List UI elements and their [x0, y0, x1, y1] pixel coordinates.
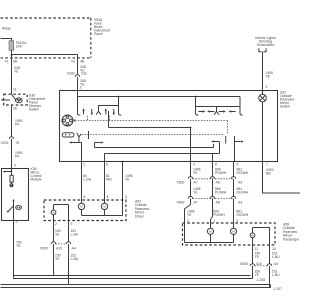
driver mirror motor M1 [78, 200, 84, 216]
svg-text:L-BU: L-BU [272, 273, 280, 277]
node junction L1 [190, 127, 192, 129]
connector X600 row A7 A8 A3 [177, 196, 243, 204]
svg-text:PK: PK [15, 123, 20, 127]
connector X600 row A10 A4 [240, 262, 278, 268]
driver mirror motor common return [82, 215, 123, 217]
svg-text:OG/WH: OG/WH [236, 213, 248, 217]
wire 881 OG/WH to X500 [234, 162, 249, 177]
svg-text:20A: 20A [16, 45, 23, 49]
internal link line L2 with arrows [105, 136, 244, 162]
svg-text:YE: YE [16, 244, 21, 248]
left-right contact group wipers [196, 107, 243, 116]
wire pin 3 feed to rail [77, 91, 79, 97]
svg-text:2: 2 [266, 85, 268, 89]
wire lamp to pin 1 [262, 102, 264, 162]
svg-text:L-BU: L-BU [71, 257, 79, 261]
svg-text:X600: X600 [177, 200, 185, 204]
wire 151 L-BU passenger [270, 245, 281, 264]
svg-text:M: M [251, 233, 253, 237]
svg-text:Schematics: Schematics [257, 43, 275, 47]
wire 881 OG/WH X500 to X600 [234, 181, 249, 197]
svg-text:L-GN: L-GN [83, 178, 92, 182]
module K36 box [2, 169, 29, 221]
svg-text:YE: YE [14, 70, 19, 74]
driver mirror bottom pins 2 and 9 [55, 222, 73, 226]
wire 4302 BN from lamp to right edge [263, 162, 301, 194]
svg-text:1: 1 [83, 163, 85, 167]
ground bus J-207 [1, 285, 283, 291]
K36 internal feed with left arrow [3, 169, 13, 176]
up-down contact group wipers [78, 97, 122, 116]
label A58 Outside Rearview Mirror - Passenger [283, 223, 300, 242]
wire 1496 YE branch to driver mirror [122, 161, 192, 216]
svg-text:YE: YE [266, 75, 271, 79]
driver mirror motor M2 [101, 200, 107, 216]
wire 151 L-BU driver [69, 221, 79, 242]
svg-text:X1: X1 [5, 59, 9, 63]
svg-text:A8: A8 [216, 200, 220, 204]
svg-text:5: 5 [106, 163, 108, 167]
wire 1490 YE [263, 52, 274, 91]
svg-text:3: 3 [125, 195, 127, 199]
svg-text:Panel: Panel [94, 32, 103, 36]
svg-text:Passenger: Passenger [283, 237, 300, 241]
fuse F61DA 20A [9, 41, 27, 50]
svg-text:X2: X2 [71, 59, 75, 63]
node junctions on rail [118, 96, 120, 98]
svg-text:A7: A7 [194, 181, 198, 185]
resistor in K36 [10, 175, 13, 182]
svg-text:75: 75 [16, 141, 20, 145]
svg-text:X500: X500 [177, 181, 185, 185]
svg-text:L-BU: L-BU [71, 233, 79, 237]
svg-text:PU/WH: PU/WH [213, 213, 225, 217]
svg-text:YE: YE [255, 255, 260, 259]
wire 150 YE passenger to ground bus [253, 268, 261, 279]
lamp illumination bulb [259, 91, 267, 102]
label A53 Outside Rearview Mirror - Driver [135, 200, 150, 219]
wire 150 YE passenger [253, 245, 261, 264]
svg-text:8: 8 [215, 163, 217, 167]
svg-text:YE: YE [187, 213, 192, 217]
passenger mirror heater motor [250, 228, 269, 246]
joystick direction control [62, 115, 73, 126]
label S92 Outside Rearview Mirror Switch [280, 91, 295, 109]
pin X1 6B [5, 59, 18, 63]
wire 150 YE driver [54, 221, 61, 242]
driver mirror A53 dashed box [44, 200, 126, 221]
label X51A Fuse Block - Instrument Panel [94, 18, 110, 36]
wire 1496 YE X500 to X600 [191, 181, 201, 197]
svg-text:J-207: J-207 [274, 287, 283, 291]
wire 869 PU/WH into passenger mirror [211, 201, 226, 224]
svg-text:A8: A8 [216, 181, 220, 185]
connector X201 pin 75 [1, 137, 20, 145]
svg-text:OG/WH: OG/WH [237, 191, 249, 195]
node junction passenger common [210, 242, 212, 244]
internal link line L1 [89, 111, 214, 162]
wire 1950 PK lower [12, 141, 23, 169]
svg-text:9: 9 [71, 222, 73, 226]
svg-text:4: 4 [107, 195, 109, 199]
ground bus J-208 [14, 276, 266, 283]
left-right contact arrows [198, 110, 235, 112]
dimmer switch S36 dashed box [4, 94, 28, 105]
svg-text:Switch: Switch [29, 108, 39, 112]
svg-text:X201: X201 [1, 141, 9, 145]
wire 150 YE driver to ground bus [54, 246, 61, 276]
passenger mirror bottom pins 11 and 10 [255, 247, 276, 251]
wire 84 L-GN [82, 162, 92, 201]
up-down contact arrows [82, 108, 115, 115]
svg-text:A10: A10 [256, 262, 262, 266]
S36 wiper and rheostat [1, 94, 22, 103]
svg-text:YE: YE [55, 257, 60, 261]
svg-text:Relay: Relay [2, 27, 11, 31]
svg-text:M: M [52, 211, 54, 215]
svg-text:6B: 6B [13, 59, 18, 63]
svg-text:X330: X330 [67, 72, 75, 76]
svg-text:1: 1 [266, 163, 268, 167]
wire from relay to fuse [1, 39, 12, 41]
svg-text:BN: BN [266, 172, 271, 176]
connector X330 b11 [67, 72, 87, 79]
wire 34D YE into switch [78, 79, 87, 91]
svg-text:4B: 4B [80, 59, 85, 63]
svg-text:YE: YE [255, 273, 260, 277]
svg-text:YE: YE [193, 191, 198, 195]
svg-text:A3: A3 [238, 181, 242, 185]
dashed linkage line lower [82, 135, 226, 144]
svg-text:A7: A7 [194, 200, 198, 204]
svg-text:A4: A4 [274, 262, 278, 266]
label S36 Instrument Panel Dimmer Switch [29, 94, 45, 112]
svg-text:2: 2 [16, 220, 18, 224]
svg-text:11: 11 [13, 88, 17, 92]
svg-text:4: 4 [14, 163, 16, 167]
svg-text:6: 6 [237, 163, 239, 167]
svg-text:YE: YE [193, 171, 198, 175]
wire 151 L-BU passenger to ground bus [270, 268, 281, 288]
connector X500 row A7 A8 A3 [177, 177, 243, 185]
svg-text:3: 3 [80, 85, 82, 89]
svg-text:Driver: Driver [135, 214, 145, 218]
select contact right arrow [95, 141, 104, 147]
wire 1950 PK [12, 105, 23, 137]
wire 750 YE to ground bus [14, 221, 22, 279]
svg-text:PU/WH: PU/WH [215, 191, 227, 195]
select contact left arrow to pin 1 [69, 137, 82, 162]
svg-text:10: 10 [272, 247, 276, 251]
svg-text:YE: YE [55, 233, 60, 237]
driver mirror top pin labels [84, 195, 109, 199]
wire 151 L-BU driver to ground bus [69, 246, 79, 285]
driver mirror heater motor [51, 205, 68, 221]
svg-text:2: 2 [55, 222, 57, 226]
fuse block X51A dashed border [1, 18, 91, 58]
wire branch to X2 4B [12, 55, 78, 75]
svg-text:X600: X600 [240, 262, 248, 266]
passenger mirror feed to motor common [185, 223, 234, 243]
S92 bottom pin labels [83, 163, 268, 167]
node junction at fuse output [11, 54, 13, 56]
svg-text:4: 4 [193, 163, 195, 167]
thermistor symbol in K36 [10, 182, 13, 187]
svg-text:18: 18 [13, 107, 17, 111]
wire 1496 YE into passenger mirror [185, 201, 195, 224]
pin X2 4B [71, 59, 85, 63]
wire 869 PU/WH X500 to X600 [213, 181, 227, 197]
svg-text:L-BU: L-BU [272, 255, 280, 259]
svg-text:Switch: Switch [280, 105, 290, 109]
label K36 Mirror Control Module [31, 167, 42, 182]
svg-text:OG/WH: OG/WH [237, 171, 249, 175]
wire 881 OG/WH into passenger mirror [234, 201, 249, 224]
connector X500 row A10 A4 [40, 242, 76, 251]
wire 869 PU/WH to X500 [213, 162, 227, 177]
svg-text:YE: YE [125, 178, 130, 182]
K36 drive switch with arrows [7, 199, 22, 221]
power rail in S92 [78, 97, 241, 107]
passenger mirror motor M2 [230, 223, 236, 243]
svg-text:PU/WH: PU/WH [215, 171, 227, 175]
switch S92 box [60, 91, 278, 162]
passenger mirror A58 dashed box [183, 223, 276, 245]
wire fuse output junction [11, 50, 13, 94]
svg-text:PK: PK [15, 155, 20, 159]
svg-text:X500: X500 [40, 247, 48, 251]
svg-text:A10: A10 [56, 247, 62, 251]
mirror select rocker [62, 133, 81, 137]
svg-text:A3: A3 [238, 200, 242, 204]
svg-text:11: 11 [255, 247, 259, 251]
wire label 34D YE right [80, 65, 87, 73]
svg-text:WH: WH [106, 178, 112, 182]
svg-text:6: 6 [84, 195, 86, 199]
svg-text:J-208: J-208 [257, 278, 266, 282]
dashed linkage line upper [75, 116, 228, 135]
svg-text:A4: A4 [72, 247, 76, 251]
wire label 34D YE left [14, 66, 21, 74]
wire 81 WH [105, 162, 113, 201]
svg-text:b11: b11 [82, 72, 88, 76]
passenger mirror motor M1 [207, 223, 213, 243]
wire 1496 YE to X500 [191, 162, 201, 177]
svg-text:Module: Module [31, 178, 42, 182]
off-page reference Interior Lights Dimming Schematics [255, 36, 276, 52]
